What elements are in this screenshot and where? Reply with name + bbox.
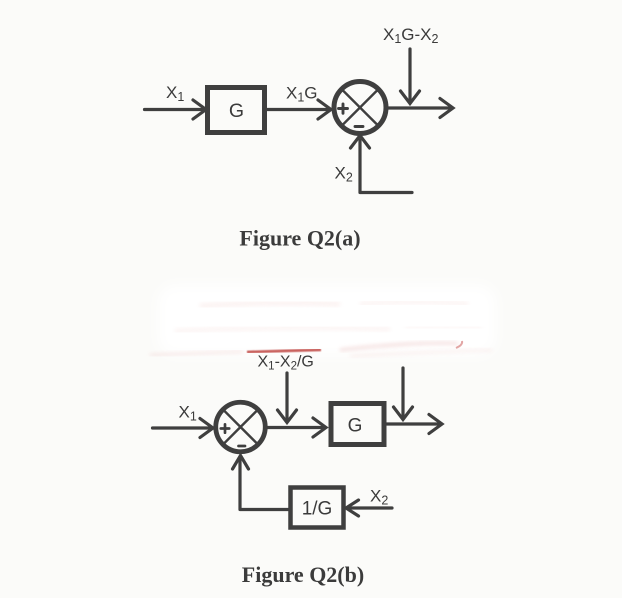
junction minus sign (355, 125, 363, 128)
arrowhead up into junction b (233, 456, 249, 470)
svg-text:X1-X2/G: X1-X2/G (258, 354, 314, 373)
red strikethrough line (247, 350, 321, 352)
arrowhead into block G b (313, 418, 326, 437)
faint red curve right (340, 343, 458, 350)
junction b X diagonal NW-SE (223, 410, 258, 445)
svg-text:Figure Q2(b): Figure Q2(b) (242, 562, 364, 587)
wire vertical X1G-X2 drop (408, 49, 411, 100)
wire X2 horizontal corner segment (360, 191, 412, 194)
pink smudge streak mid (175, 328, 390, 331)
junction X diagonal NW-SE (342, 89, 379, 126)
pink smudge patch mid right (405, 327, 482, 328)
junction X diagonal NE-SW (342, 89, 379, 126)
wire block G to output (386, 422, 440, 425)
arrowhead down onto wire (278, 410, 297, 423)
wire junction to block G (265, 426, 324, 429)
faint red streak left (150, 352, 243, 356)
junction b plus sign (221, 424, 229, 432)
arrowhead up into junction (351, 136, 370, 149)
arrowhead into junction b (200, 419, 213, 438)
arrowhead down onto output wire (401, 91, 420, 104)
block G (figure b) (331, 404, 384, 445)
wire feedback horizontal to 1/G (240, 508, 290, 511)
block 1/G (291, 488, 344, 528)
summing junction circle (figure b) (216, 402, 266, 452)
faint pink streak lower right (350, 350, 492, 356)
arrowhead output (440, 99, 453, 118)
arrowhead into G (193, 100, 206, 119)
summing junction circle (figure a) (334, 82, 386, 134)
svg-text:G: G (229, 100, 244, 122)
block G (figure a) (208, 88, 265, 133)
wire X2 into 1/G (348, 506, 392, 509)
junction plus sign (339, 104, 348, 113)
junction b minus sign (239, 445, 246, 448)
svg-text:G: G (348, 416, 363, 437)
junction b X diagonal NE-SW (223, 410, 258, 445)
red hook mark right (456, 341, 462, 348)
arrowhead left into 1/G (346, 500, 359, 516)
wire G to summing junction (267, 108, 329, 111)
wire vertical drop X1-X2/G (285, 373, 288, 419)
wire input X1 to junction (153, 426, 212, 429)
arrowhead into junction (318, 100, 331, 119)
wire X2 vertical up into junction (358, 140, 361, 192)
wire second vertical drop (401, 368, 404, 416)
pink smudge streak upper (200, 303, 340, 306)
svg-text:Figure Q2(a): Figure Q2(a) (239, 226, 360, 251)
wire junction to output (386, 106, 451, 109)
svg-text:1/G: 1/G (302, 499, 333, 520)
svg-text:X1G-X2: X1G-X2 (383, 25, 439, 46)
arrowhead output b (429, 415, 442, 434)
pink smudge patch upper right (360, 302, 468, 304)
arrowhead down onto output wire b (394, 407, 413, 420)
wire input X1 to block G (145, 108, 205, 111)
eraser smudge band artifact (158, 285, 496, 355)
wire feedback vertical up into junction (238, 460, 241, 509)
